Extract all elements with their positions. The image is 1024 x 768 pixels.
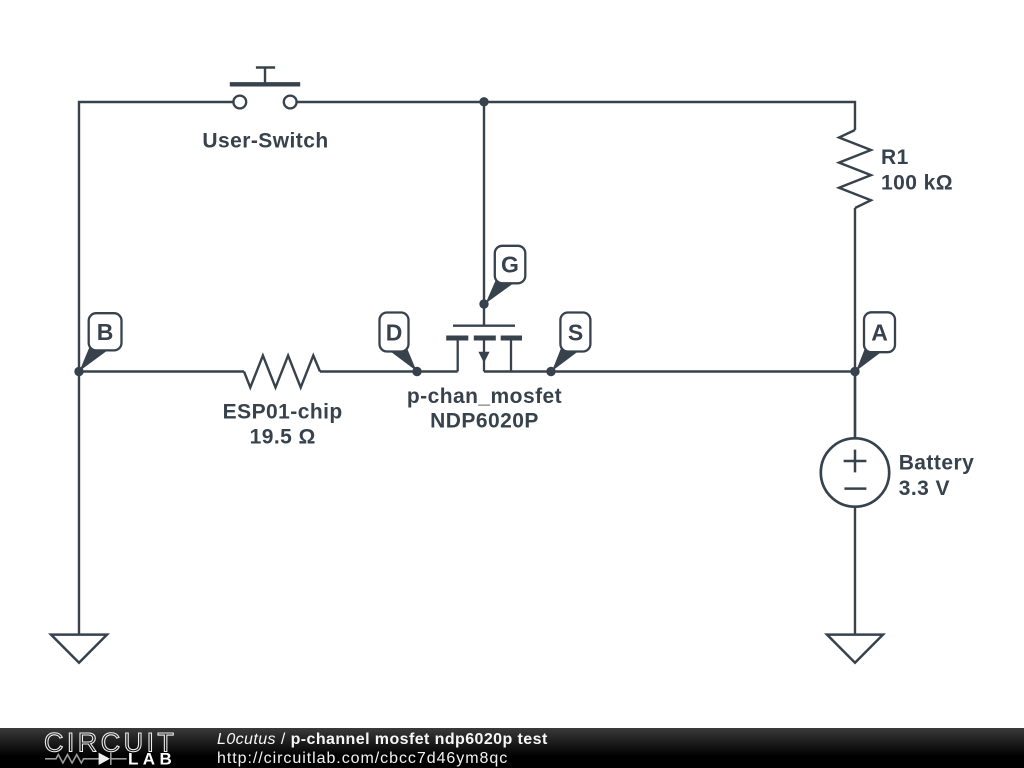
mosfet M1 channel segment left xyxy=(446,336,468,341)
svg-text:D: D xyxy=(386,320,403,346)
CircuitLab logo wordmark CIRCUIT xyxy=(44,728,177,758)
label User-Switch xyxy=(202,130,328,153)
wire: mosfet source rail to node A xyxy=(484,370,855,372)
node dot B xyxy=(74,367,83,376)
svg-text:Battery: Battery xyxy=(899,452,975,475)
node tag B xyxy=(80,313,122,371)
node tag D xyxy=(380,313,417,372)
mosfet M1 body arrow xyxy=(478,352,489,363)
switch SW1 stem xyxy=(264,68,266,85)
resistor R1 zigzag body xyxy=(839,130,871,208)
switch SW1 right contact circle xyxy=(284,96,297,109)
switch SW1 top tee bar xyxy=(256,66,275,69)
wire: node A to battery top xyxy=(854,372,856,439)
svg-text:100 kΩ: 100 kΩ xyxy=(881,171,953,194)
svg-text:R1: R1 xyxy=(881,146,909,169)
wire: top rail left segment and left vertical rail xyxy=(79,102,233,635)
footer title line xyxy=(217,731,548,749)
label NDP6020P xyxy=(430,410,539,433)
node tag S xyxy=(552,313,590,372)
footer url line xyxy=(217,750,508,768)
svg-text:p-chan_mosfet: p-chan_mosfet xyxy=(407,385,562,408)
wire: top rail from switch to top-right corner xyxy=(297,102,855,130)
svg-text:G: G xyxy=(501,252,519,278)
wire: gate vertical from top junction to mosfet gate xyxy=(483,102,485,325)
node tag A xyxy=(856,312,895,371)
mosfet M1 channel segment middle xyxy=(474,336,496,341)
wire: battery bottom to right ground xyxy=(854,507,856,635)
ground symbol left xyxy=(51,635,107,663)
battery plus sign xyxy=(844,450,867,473)
label Battery xyxy=(899,452,975,475)
node tag G xyxy=(486,246,526,304)
wire: right vertical from R1 to node A xyxy=(854,208,856,438)
node dot S xyxy=(546,367,555,376)
mosfet M1 drain lead xyxy=(457,340,459,372)
label Battery value 3.3 V xyxy=(899,477,950,500)
label R1 xyxy=(881,146,909,169)
wire: main rail from node B to ESP01 resistor xyxy=(79,370,244,372)
svg-text:A: A xyxy=(871,320,888,346)
svg-text:User-Switch: User-Switch xyxy=(202,130,328,153)
svg-text:3.3 V: 3.3 V xyxy=(899,477,950,500)
footer bar xyxy=(0,728,1024,768)
mosfet M1 channel segment right xyxy=(501,336,522,341)
switch SW1 actuator bar xyxy=(230,82,300,86)
battery V1 circle xyxy=(821,438,889,506)
mosfet M1 body lead xyxy=(483,340,485,372)
resistor ESP01-chip zigzag body xyxy=(244,356,320,388)
svg-text:LAB: LAB xyxy=(128,750,176,768)
switch SW1 left contact circle xyxy=(233,96,246,109)
svg-text:B: B xyxy=(97,319,114,345)
battery minus sign xyxy=(844,487,866,490)
CircuitLab logo wordmark LAB xyxy=(128,750,176,768)
svg-text:19.5 Ω: 19.5 Ω xyxy=(250,426,316,449)
svg-text:NDP6020P: NDP6020P xyxy=(430,410,539,433)
label R1 value 100 kOhm xyxy=(881,171,953,194)
label ESP01 value 19.5 Ohm xyxy=(250,426,316,449)
CircuitLab logo resistor-diode glyph xyxy=(45,753,127,765)
svg-text:S: S xyxy=(568,320,583,346)
svg-text:ESP01-chip: ESP01-chip xyxy=(223,400,343,423)
label p-chan_mosfet xyxy=(407,385,562,408)
junction dot at switch/gate/R1 top rail xyxy=(479,97,488,106)
node dot D xyxy=(412,367,421,376)
label ESP01-chip xyxy=(223,400,343,423)
node dot A xyxy=(850,367,859,376)
node dot G xyxy=(479,299,488,308)
mosfet M1 source lead xyxy=(510,340,512,372)
ground symbol right xyxy=(827,635,883,663)
mosfet M1 gate bar xyxy=(453,325,515,327)
wire: ESP01 resistor to mosfet drain xyxy=(320,370,458,372)
